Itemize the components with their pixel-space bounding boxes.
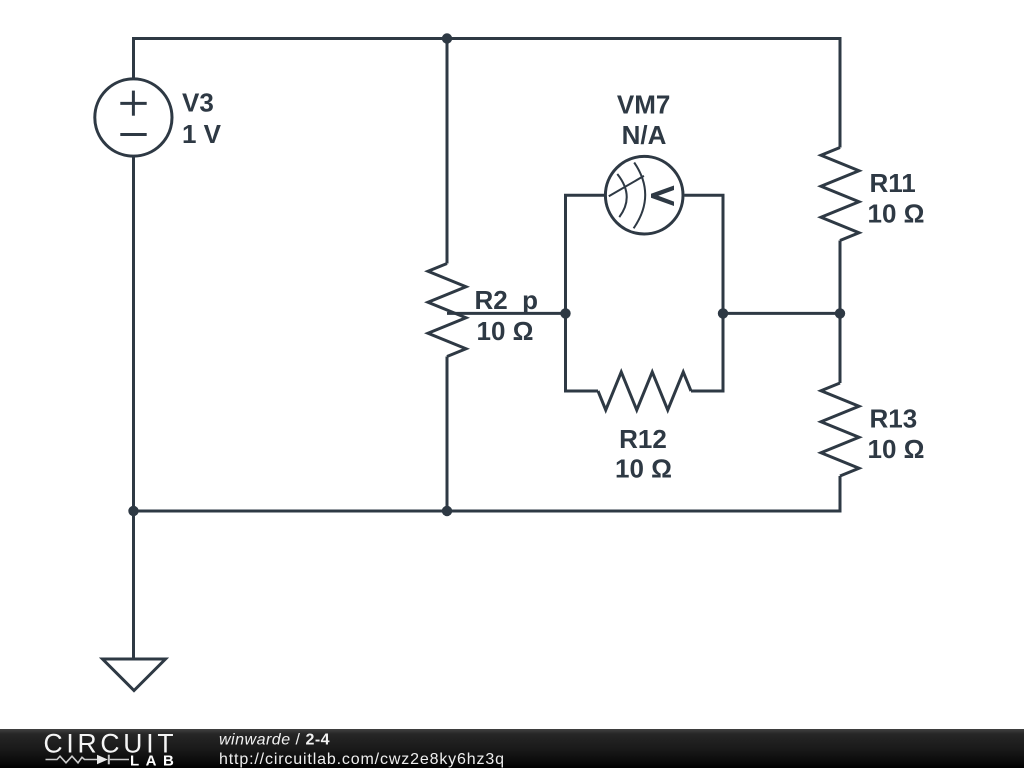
svg-text:R13: R13 [870,404,918,434]
svg-text:R12: R12 [619,424,667,454]
wire right vertical (R13 bottom lead) [839,476,842,511]
wire left vertical (V3 top lead) [132,39,135,79]
resistor R13 [821,383,859,476]
svg-text:http://circuitlab.com/cwz2e8ky: http://circuitlab.com/cwz2e8ky6hz3q [219,751,505,768]
junction dot right rail (840,313.4) [835,308,845,318]
ground [103,659,166,691]
wire bottom horizontal [134,510,841,513]
svg-text:R11: R11 [870,168,916,198]
CircuitLab logo schematic squiggle (resistor + diode) [46,755,130,765]
junction dot bottom middle (447,511) [442,506,452,516]
svg-text:winwarde / 2-4: winwarde / 2-4 [219,732,330,749]
wire left vertical (V3 bottom lead) [132,157,135,511]
voltage source V3 [95,79,172,156]
wire top horizontal [134,37,841,40]
resistor R12 [598,372,691,410]
svg-text:1 V: 1 V [182,119,222,149]
wire ground lead [132,511,135,658]
resistor R11 [821,148,859,241]
svg-text:10 Ω: 10 Ω [868,198,925,228]
wire R2_p output horizontal to node A [447,312,566,315]
wire parallel-block right rail [685,195,724,391]
wire middle vertical top (to R2_p) [446,39,449,264]
svg-text:LAB: LAB [130,753,180,768]
svg-text:VM7: VM7 [617,90,670,120]
svg-text:V3: V3 [182,88,214,118]
svg-text:10 Ω: 10 Ω [868,434,925,464]
svg-text:10 Ω: 10 Ω [615,453,672,483]
junction dot node B (723,313.4) [718,308,728,318]
junction dot bottom left (133.5,511) [128,506,138,516]
wire parallel-block left rail [566,195,605,391]
wire node B horizontal to right rail [723,312,840,315]
voltmeter VM7 [605,156,683,234]
wire right vertical (R11 to R13) [839,241,842,384]
svg-text:10 Ω: 10 Ω [477,316,534,346]
svg-text:N/A: N/A [622,120,667,150]
wire middle vertical bottom (from R2_p) [446,357,449,512]
resistor R2_p [428,264,466,357]
junction dot top (node at 447,38.5) [442,33,452,43]
junction dot node A (565.5,313.4) [560,308,570,318]
wire right vertical (top lead of R11) [839,39,842,148]
svg-text:R2 p: R2 p [475,285,539,315]
